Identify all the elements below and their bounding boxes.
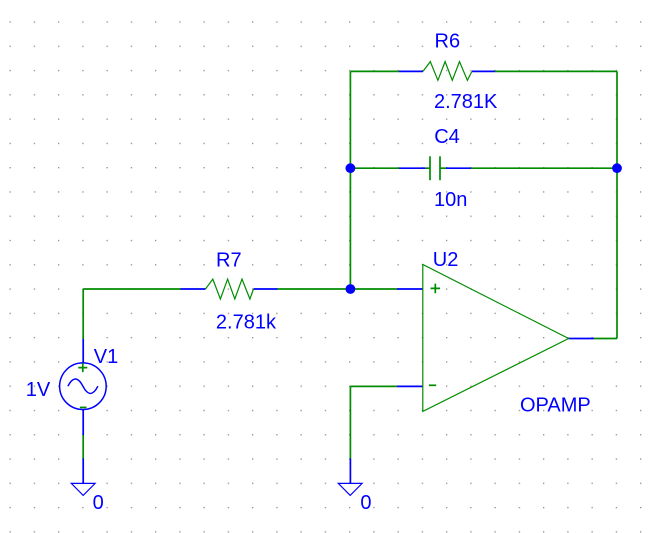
svg-text:0: 0 xyxy=(360,492,371,514)
ground right xyxy=(338,483,362,495)
wire left vertical of feedback loop xyxy=(349,71,351,289)
svg-text:R7: R7 xyxy=(216,249,242,271)
wire top feedback left (R6 left) xyxy=(350,70,399,72)
wire R7 left xyxy=(83,288,180,290)
resistor R6 xyxy=(423,62,472,81)
wire R7 right to +input node xyxy=(278,288,398,290)
wire output xyxy=(594,338,617,340)
svg-text:2.781k: 2.781k xyxy=(216,312,277,334)
pin ground right xyxy=(349,459,351,484)
pin ground left xyxy=(82,459,84,484)
svg-text:R6: R6 xyxy=(435,30,461,52)
svg-text:10n: 10n xyxy=(434,189,467,211)
wire C4 right xyxy=(471,167,617,169)
node junction dot at C4 right xyxy=(612,163,622,173)
pin U2 output xyxy=(569,338,595,340)
wire -input vertical to ground xyxy=(349,386,351,458)
capacitor C4 xyxy=(426,156,447,180)
op-amp plus sign xyxy=(431,284,441,294)
svg-text:U2: U2 xyxy=(433,249,459,271)
op-amp U2 xyxy=(423,265,569,412)
svg-text:2.781K: 2.781K xyxy=(434,91,498,113)
svg-text:OPAMP: OPAMP xyxy=(520,395,591,417)
pin R6 right xyxy=(472,70,495,72)
pin C4 left xyxy=(399,167,426,169)
pin U2 -input xyxy=(397,385,423,387)
V1 sine wave xyxy=(68,379,98,394)
resistor R7 xyxy=(206,279,254,299)
V1 plus sign xyxy=(78,363,87,372)
V1 minus sign xyxy=(80,406,87,408)
op-amp minus sign xyxy=(429,384,436,386)
svg-text:V1: V1 xyxy=(94,346,118,368)
pin R7 right xyxy=(254,288,278,290)
wire C4 left xyxy=(350,167,399,169)
pin U2 +input xyxy=(397,288,423,290)
node junction dot at C4 left xyxy=(346,163,356,173)
wire right vertical (output to top corner) xyxy=(616,71,618,338)
pin V1 bottom xyxy=(82,410,84,435)
wire -input horizontal xyxy=(350,385,397,387)
pin V1 top xyxy=(82,339,84,363)
wire V1 bottom to ground xyxy=(82,435,84,459)
wire top feedback right (R6 right to corner) xyxy=(495,70,617,72)
node junction dot at +input xyxy=(346,284,356,294)
ground left xyxy=(71,483,95,495)
svg-text:C4: C4 xyxy=(434,126,460,148)
source V1 xyxy=(60,363,107,410)
pin R6 left xyxy=(399,70,423,72)
wire V1 top vertical xyxy=(82,289,84,339)
svg-text:0: 0 xyxy=(93,492,104,514)
svg-text:1V: 1V xyxy=(26,379,51,401)
pin C4 right xyxy=(446,167,471,169)
pin R7 left xyxy=(181,288,206,290)
